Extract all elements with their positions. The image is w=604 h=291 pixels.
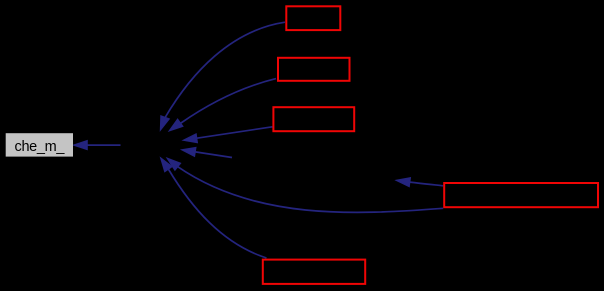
svg-text:che_m_: che_m_: [15, 139, 66, 155]
red node box (second, truncated label): [278, 58, 350, 81]
edge right-red-box->hidden-node2: [396, 178, 443, 187]
edge bottom-red-box->hidden-node: [161, 158, 267, 258]
edge hidden-node2->hidden-node: [182, 147, 233, 157]
node che_m_ (current module, gray box): [6, 133, 73, 156]
edge top-red-box->hidden-node: [160, 22, 285, 130]
edge second-red-box->hidden-node: [169, 79, 276, 131]
red node box (bottom, truncated label): [263, 260, 365, 284]
red node box (third, truncated label): [273, 107, 354, 131]
edge right-red-box->hidden-node (long sweep): [167, 158, 443, 212]
edge hidden-node->che_m_ (include arrow): [73, 141, 120, 150]
edge third-red-box->hidden-node: [183, 127, 272, 143]
red node box (top, truncated label): [286, 6, 340, 30]
red node box (right, truncated label): [444, 183, 598, 207]
